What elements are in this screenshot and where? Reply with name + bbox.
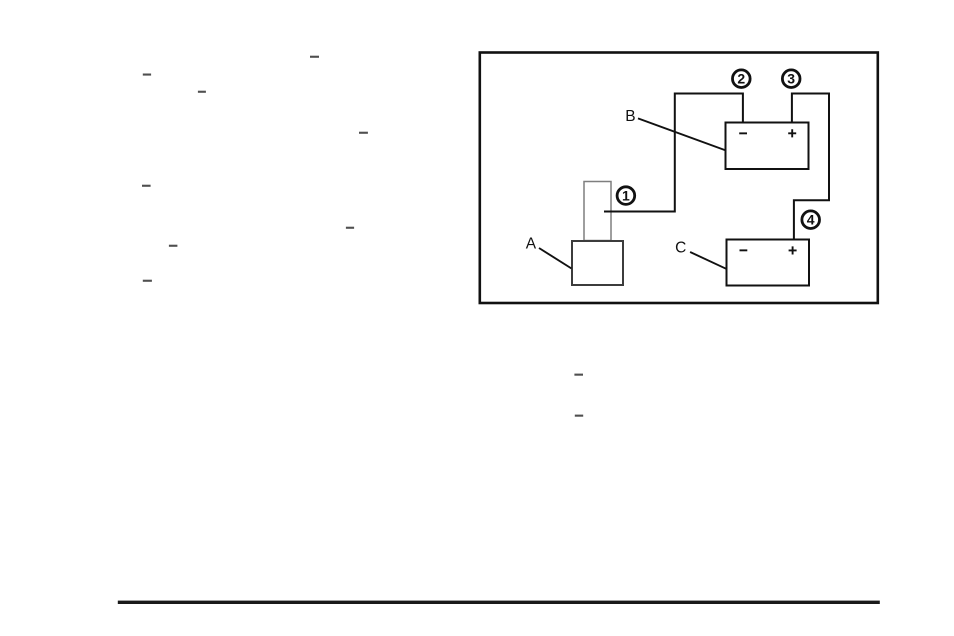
leader C — [690, 252, 726, 269]
hyphen dash 9 — [574, 374, 583, 376]
hyphen dash 3 — [198, 91, 206, 93]
leader B — [638, 118, 725, 150]
battery C minus — [740, 249, 748, 251]
wire battery B positive to battery C positive (cable 3-4) — [792, 94, 829, 240]
callout circle 3 — [782, 70, 800, 88]
figure frame — [480, 53, 878, 304]
hyphen dash 5 — [142, 185, 151, 187]
svg-text:1: 1 — [622, 187, 630, 203]
svg-text:3: 3 — [787, 71, 795, 87]
hyphen dash 10 — [575, 415, 583, 417]
callout circle 2 — [733, 70, 751, 88]
svg-text:C: C — [675, 240, 686, 257]
wire from remote terminal to battery B negative (cable 1) — [604, 94, 743, 212]
svg-text:4: 4 — [807, 212, 815, 228]
hyphen dash 7 — [169, 245, 178, 247]
battery B plus — [788, 129, 796, 137]
hyphen dash 6 — [346, 227, 354, 229]
leader A — [539, 248, 572, 269]
hyphen dash 1 — [310, 56, 319, 58]
battery C plus — [789, 246, 797, 254]
hyphen dash 4 — [359, 132, 368, 134]
svg-text:A: A — [526, 235, 537, 252]
hyphen dash 2 — [143, 74, 151, 76]
battery C box — [727, 240, 810, 286]
battery B box — [726, 123, 809, 170]
hyphen dash 8 — [143, 280, 152, 282]
callout circle 4 — [802, 211, 820, 229]
svg-text:2: 2 — [737, 71, 745, 87]
battery B minus — [739, 132, 747, 134]
remote positive terminal stalk (gray) — [584, 182, 611, 241]
bottom rule — [118, 601, 880, 604]
box A (engine / remote terminal base) — [572, 241, 623, 285]
svg-text:B: B — [625, 108, 635, 125]
callout circle 1 — [617, 187, 635, 205]
